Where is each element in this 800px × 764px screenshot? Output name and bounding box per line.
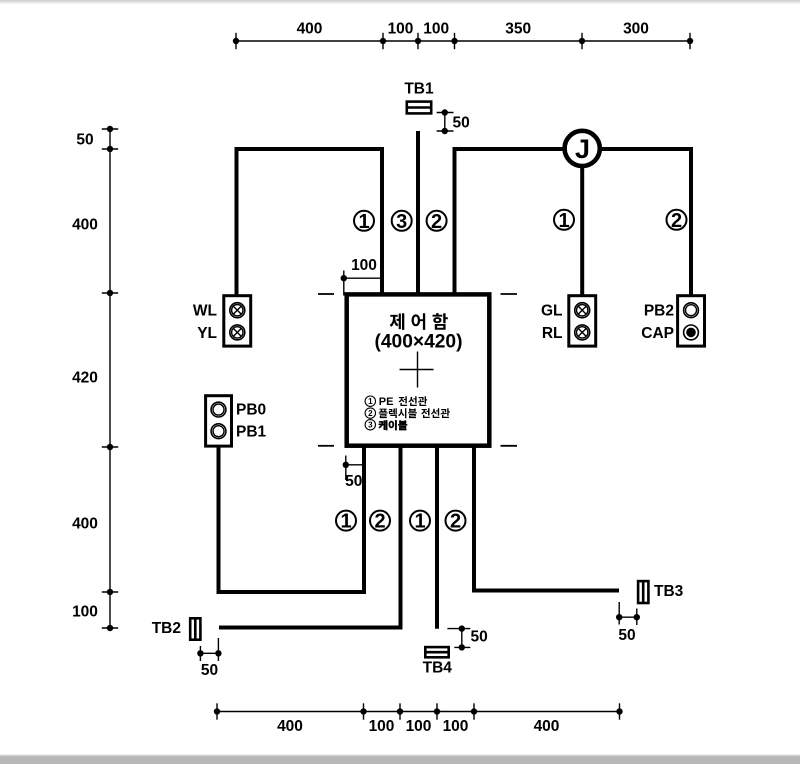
lamp unit GL/RL	[541, 296, 596, 346]
top dimension line (400/100/100/350/300)	[236, 33, 690, 49]
wire: junction J drop to GL/RL lamps	[580, 166, 584, 295]
svg-text:PB1: PB1	[236, 424, 267, 441]
svg-text:400: 400	[72, 216, 98, 233]
svg-text:2: 2	[431, 211, 442, 233]
svg-text:2: 2	[374, 511, 385, 533]
wire label 3 (top, cable)	[392, 211, 412, 233]
control box center cross	[400, 352, 434, 388]
svg-text:100: 100	[72, 603, 98, 620]
control box 제어함 (400x420)	[347, 294, 490, 445]
terminal block TB1	[404, 81, 434, 114]
svg-text:50: 50	[345, 473, 362, 490]
svg-text:400: 400	[72, 515, 98, 532]
wall break dash bottom-right	[501, 445, 518, 447]
legend item 1: PE conduit	[365, 396, 427, 408]
wall break dash top-right	[501, 293, 518, 295]
svg-text:1: 1	[414, 511, 425, 533]
dimension 50 at TB1	[437, 109, 470, 134]
svg-text:300: 300	[623, 21, 649, 38]
svg-text:100: 100	[351, 257, 377, 274]
svg-text:100: 100	[388, 21, 414, 38]
junction box J	[565, 131, 600, 166]
wire: WL lamp riser + top-left run + conduit 1 drop into control box	[237, 149, 383, 295]
push button unit PB0/PB1	[206, 396, 267, 446]
svg-text:100: 100	[369, 718, 395, 735]
wire: flexible conduit 2 control box bottom to TB3	[474, 447, 619, 591]
terminal block TB4	[423, 647, 453, 676]
svg-text:50: 50	[618, 627, 635, 644]
terminal block TB3	[638, 581, 684, 603]
svg-text:1: 1	[558, 210, 569, 232]
wire: cable 3 from TB1 into control box top	[416, 131, 420, 293]
svg-text:GL: GL	[541, 303, 563, 320]
wire: flexible conduit 2 control box bottom to TB2	[219, 447, 401, 628]
wire: flexible conduit 2 from control box top to junction J	[455, 149, 566, 293]
svg-text:100: 100	[443, 718, 469, 735]
svg-text:PE: PE	[379, 396, 394, 408]
svg-text:1: 1	[340, 511, 351, 533]
svg-text:TB1: TB1	[404, 81, 434, 98]
svg-text:2: 2	[671, 210, 682, 232]
svg-text:YL: YL	[197, 325, 217, 342]
terminal block TB2	[152, 618, 201, 639]
legend item 3: cable	[365, 420, 407, 431]
svg-text:2: 2	[450, 511, 461, 533]
svg-text:400: 400	[297, 21, 323, 38]
svg-text:50: 50	[471, 629, 488, 646]
svg-text:1: 1	[368, 397, 373, 406]
wire label 2 (top, flexible)	[427, 211, 447, 233]
svg-text:3: 3	[396, 211, 407, 233]
svg-text:(400×420): (400×420)	[374, 332, 462, 353]
svg-text:1: 1	[358, 211, 369, 233]
wire: conduit 1 stub control box bottom to TB4	[435, 447, 439, 629]
legend item 2: flexible conduit	[365, 408, 450, 418]
svg-text:RL: RL	[542, 325, 563, 342]
wire label 2 (bottom, to TB3)	[446, 511, 466, 533]
push button PB2 / capacitor CAP unit	[641, 296, 704, 346]
control box title 제어함	[390, 313, 448, 330]
wire label 1 (bottom, to PB0)	[336, 511, 356, 533]
wire label 1 (GL/RL riser)	[554, 210, 574, 232]
dimension 50 (box edge to conduit 1, bottom)	[343, 456, 364, 490]
lamp unit WL/YL	[193, 296, 251, 346]
svg-text:CAP: CAP	[641, 325, 674, 342]
svg-text:100: 100	[423, 21, 449, 38]
wire: conduit 1 control box bottom to PB0/PB1	[219, 447, 365, 593]
dimension 50 at TB2	[197, 638, 221, 679]
bottom dimension line (400/100/100/100/400)	[217, 703, 620, 719]
left dimension line (50/400/420/400/100)	[102, 129, 118, 628]
wall break dash top-left	[318, 293, 334, 295]
svg-text:TB3: TB3	[654, 583, 684, 600]
wire label 1 (bottom, to TB4)	[410, 511, 430, 533]
svg-text:50: 50	[76, 131, 93, 148]
svg-text:J: J	[575, 134, 590, 164]
svg-text:350: 350	[505, 21, 531, 38]
svg-text:100: 100	[406, 718, 432, 735]
dimension 50 at TB4	[447, 625, 487, 650]
svg-text:WL: WL	[193, 303, 217, 320]
svg-text:50: 50	[453, 114, 470, 131]
wire: junction J to PB2/CAP riser	[600, 149, 692, 295]
svg-text:3: 3	[368, 421, 373, 430]
dimension 100 (box edge to conduit 1)	[341, 257, 382, 296]
svg-text:TB2: TB2	[152, 620, 181, 637]
svg-text:400: 400	[534, 718, 560, 735]
wire label 2 (PB2 riser)	[667, 210, 687, 232]
svg-text:2: 2	[368, 409, 373, 418]
wire label 1 (top, conduit 1)	[354, 211, 374, 233]
top page edge	[0, 0, 800, 5]
svg-text:400: 400	[277, 718, 303, 735]
svg-text:PB2: PB2	[644, 303, 674, 320]
svg-text:420: 420	[72, 369, 98, 386]
svg-text:TB4: TB4	[423, 660, 453, 677]
wire label 2 (bottom, to TB2)	[370, 511, 390, 533]
svg-text:50: 50	[201, 662, 218, 679]
svg-text:PB0: PB0	[236, 402, 266, 419]
dimension 50 at TB3	[616, 602, 640, 644]
bottom page edge	[0, 754, 800, 764]
wall break dash bottom-left	[318, 445, 334, 447]
